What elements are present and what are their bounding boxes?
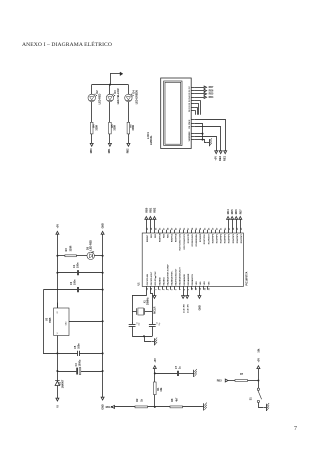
svg-text:RC7/RX/DT: RC7/RX/DT (208, 233, 210, 244)
wire R3 row (57, 254, 65, 256)
U1 top pin RD2/PSP2 stub (218, 230, 220, 233)
U1 pin number 13 (147, 287, 149, 290)
terminal VSS (down arrow) (198, 296, 201, 299)
U1 pin number 8 (184, 288, 186, 290)
wire LCD D7 to terminal RD7 (194, 86, 204, 88)
wire U1 RD5 up (231, 219, 233, 230)
U1 pin name MCLR/Vpp/THV (155, 271, 157, 286)
wire OSC1 left loop (132, 289, 146, 322)
LCD pin D1 stub (191, 106, 194, 108)
svg-text:RD5: RD5 (231, 209, 234, 214)
LCD pin name RW (189, 121, 191, 124)
wire LCD D1 down (194, 107, 197, 115)
wire LCD D0 down (194, 110, 195, 114)
U1 pin number 31 (208, 287, 210, 290)
resistor R7 (235, 380, 248, 382)
svg-text:OSC2/CLKOUT: OSC2/CLKOUT (151, 271, 153, 285)
U1 top pin RB1 stub (149, 230, 151, 233)
U1 bottom pin RE2/AN7/CS stub (190, 286, 192, 289)
label net +5V (LCD) (213, 156, 217, 161)
label value 330R (95, 125, 98, 131)
U1 bottom pin RA3/AN3/VREF+ stub (169, 286, 171, 289)
svg-text:GND: GND (199, 305, 202, 311)
U1 pin number 28 (233, 227, 235, 230)
wire LED to resistor R4 (90, 102, 92, 123)
label C2 value (159, 323, 161, 326)
svg-text:+5V: +5V (257, 358, 260, 363)
U1 top pin RD6/PSP6 stub (235, 230, 237, 233)
wire LCD RS to terminal (194, 126, 220, 150)
svg-text:RE2/AN7/CS: RE2/AN7/CS (191, 274, 194, 286)
svg-text:100n: 100n (74, 279, 77, 285)
svg-text:LCD_EN: LCD_EN (187, 304, 189, 313)
wire MCLR row left (115, 405, 136, 407)
LCD pin name D1 (189, 105, 191, 108)
svg-text:RD6/PSP6: RD6/PSP6 (237, 234, 239, 243)
svg-text:100n: 100n (77, 262, 80, 268)
label net RB1 (U1 top) (149, 207, 152, 212)
U1 pin number 40 (175, 227, 178, 230)
label C3 value (78, 359, 81, 366)
wire rail to LED D3 (108, 85, 110, 95)
label net RD7 (U1 top) (239, 209, 242, 214)
label R4 (93, 124, 96, 128)
label D3 (114, 90, 117, 94)
wire LCD D5 to terminal RD5 (194, 92, 204, 94)
U1 top pin RD1/PSP1 stub (214, 230, 216, 233)
svg-text:GND: GND (102, 223, 105, 229)
ground (LCD) (207, 138, 212, 146)
capacitor C7 (155, 371, 192, 376)
U1 bottom pin MCLR/Vpp/THV stub (153, 286, 155, 289)
U1 pin number 20 (217, 227, 219, 230)
wire U1 RD4 up (227, 219, 229, 230)
U1 bottom pin RA5/AN4/SS/C2OUT stub (178, 286, 180, 289)
U1 pin number 7 (180, 288, 182, 290)
svg-text:RB0: RB0 (145, 207, 148, 212)
svg-text:RD6: RD6 (235, 209, 238, 214)
label net RE2 (218, 155, 222, 161)
svg-text:RB1: RB1 (149, 207, 152, 212)
LED D3 LED-YELLOW (106, 94, 115, 102)
U1 pin number 25 (204, 227, 206, 230)
power +5V arrow (top) (110, 72, 123, 76)
U1 pin name VSS (208, 281, 210, 286)
label 7805 (49, 317, 52, 323)
U1 pin name RC3/SCK/SCL (192, 233, 194, 246)
wire U1 RD6 up (235, 219, 237, 230)
LCD LCD1 outer body (161, 78, 192, 149)
label net RD5 (209, 93, 214, 96)
label C1 (136, 322, 138, 324)
voltage regulator U3 7805 body (54, 308, 69, 336)
svg-text:7805: 7805 (49, 317, 52, 323)
terminal LCD_RS (down arrow) (182, 296, 185, 299)
terminal RD4 (right arrow) (204, 96, 206, 99)
U1 top pin RC4/SDI/SDA stub (194, 230, 196, 233)
svg-text:RB2: RB2 (127, 148, 130, 153)
svg-text:1N4007: 1N4007 (61, 379, 64, 388)
wire R8 to ground (183, 405, 202, 407)
label LED-GREEN (135, 90, 138, 104)
label net RB2 (127, 148, 130, 153)
LCD pin E stub (191, 118, 194, 120)
svg-text:RE1: RE1 (222, 155, 226, 161)
ground (button) (264, 403, 269, 411)
LCD pin D2 stub (191, 102, 194, 104)
terminal MCLR (left arrow) (112, 405, 115, 408)
U3 pin VO stub (56, 303, 58, 308)
wire LCD VDD to +5V terminal (194, 136, 216, 150)
svg-text:MCLR: MCLR (106, 406, 113, 409)
label net +5V (PSU) (56, 224, 59, 229)
LCD pin name VSS (189, 137, 191, 142)
junction R3 row left (56, 255, 58, 257)
svg-text:RD2/PSP2: RD2/PSP2 (221, 234, 223, 243)
terminal +5V (PSU top, up arrow) (56, 231, 59, 234)
U1 bottom pin RA4/T0CKI/C1OUT stub (173, 286, 175, 289)
wire U1 RB0 up (145, 219, 147, 230)
wire to LCD ground (202, 139, 206, 142)
capacitor C3 (electrolytic) (57, 368, 102, 375)
svg-text:RE1/AN6/WR: RE1/AN6/WR (187, 273, 190, 285)
U1 bottom pin VSS stub (206, 286, 208, 289)
U1 pin name VSS (200, 281, 202, 286)
diode D1 1N4007 (55, 371, 60, 398)
terminal RB1 (down arrow) (108, 143, 111, 146)
svg-text:20MHz: 20MHz (146, 297, 149, 305)
wire D5 to GND rail (94, 254, 102, 256)
label net VI (56, 405, 60, 408)
label C4 (73, 264, 76, 268)
U1 top pin RC7/RX/DT stub (206, 230, 208, 233)
U1 top pin RB3/PGM stub (157, 230, 159, 233)
terminal MCLR (down arrow) (153, 296, 156, 299)
label net RB3 (217, 379, 222, 382)
U1 top pin RD0/PSP0 stub (210, 230, 212, 233)
wire node down to switch (257, 381, 259, 389)
svg-text:LCD_RS: LCD_RS (183, 304, 185, 313)
label C5 (74, 345, 77, 349)
U1 top pin RC0/T1OSO/T1CKI stub (178, 230, 180, 233)
U1 bottom pin RA2/AN2/VREF-/CVREF stub (165, 286, 167, 289)
U1 pin name RD4/PSP4 (228, 233, 231, 243)
wire OSC2 down (150, 289, 152, 322)
svg-text:RB1: RB1 (151, 234, 153, 238)
svg-text:22p: 22p (139, 323, 141, 326)
wire U3 GND to rail (69, 320, 103, 322)
junction RW/VSS (202, 139, 204, 141)
svg-text:RA2/AN2/VREF-/CVREF: RA2/AN2/VREF-/CVREF (166, 263, 169, 285)
label 1N4007 (61, 379, 64, 388)
U1 pin name RD2/PSP2 (221, 234, 223, 243)
U1 pin name RA4/T0CKI/C1OUT (175, 268, 178, 286)
wire LED to resistor R5 (108, 102, 110, 123)
terminal RB1 (up arrow) (149, 216, 152, 219)
capacitor C2 (149, 322, 156, 336)
wire node up to +5V (257, 369, 259, 381)
label C7 value (179, 366, 182, 369)
svg-text:OSC1/CLKIN: OSC1/CLKIN (147, 273, 149, 285)
label LCD1 (146, 132, 150, 139)
label net +5V (button) (257, 358, 260, 363)
svg-text:RC4/SDI/SDA: RC4/SDI/SDA (195, 234, 198, 247)
U1 top pin RB6/PGC stub (169, 230, 171, 233)
U1 pin name RA1/AN1 (162, 277, 165, 285)
junction RW/VEE (202, 133, 204, 135)
capacitor C4 (57, 270, 102, 275)
label net RD6 (209, 89, 214, 92)
label net RD5 (U1 top) (231, 209, 234, 214)
junction R3 row right (102, 255, 104, 257)
U3 pin name GND (66, 321, 68, 326)
terminal RB2 (up arrow) (153, 216, 156, 219)
svg-text:GND: GND (102, 404, 105, 410)
label LED-RED (99, 93, 102, 104)
label D2 (96, 90, 99, 94)
svg-text:RB6/PGC: RB6/PGC (172, 233, 174, 242)
U1 pin number 17 (188, 227, 190, 230)
LCD pin D4 stub (191, 96, 194, 98)
wire +5V rail (PSU) (56, 234, 58, 308)
label D5 (87, 246, 90, 250)
svg-text:+5V: +5V (56, 224, 59, 229)
wire rail to LED D2 (90, 85, 92, 95)
U1 pin name RA0/AN0 (158, 277, 161, 285)
label R7 value 10k (257, 348, 260, 353)
terminal RD4 (up arrow) (227, 216, 230, 219)
LCD pin name D2 (189, 102, 191, 105)
LCD pin name D0 (189, 109, 191, 112)
U1 top pin RB4 stub (161, 230, 163, 233)
U1 pin number 29 (237, 227, 239, 230)
U1 pin number 24 (199, 227, 202, 230)
resistor R3 (65, 255, 77, 257)
label C6 (70, 281, 73, 285)
svg-text:100n: 100n (77, 343, 80, 349)
wire resistor to terminal RB1 (108, 134, 110, 144)
svg-text:VDD: VDD (204, 281, 206, 286)
svg-text:7: 7 (294, 426, 297, 432)
LCD pin name E (189, 119, 191, 121)
U1 top pin RB5 stub (165, 230, 167, 233)
wire U3 VI down (56, 336, 58, 354)
U1 pin name VDD (196, 281, 198, 286)
svg-text:RB2: RB2 (155, 234, 157, 238)
wire switch to ground (258, 402, 263, 407)
LED D4 LED-GREEN (125, 94, 134, 102)
svg-text:RD5/PSP5: RD5/PSP5 (233, 234, 235, 243)
junction U3 GND rail (102, 320, 104, 322)
resistor R2 (135, 406, 148, 408)
label LED-YELLOW (117, 88, 120, 105)
svg-text:LED-RED: LED-RED (90, 240, 93, 251)
U1 pin number 32 (204, 287, 206, 290)
label LM016L (149, 135, 153, 145)
label R1 (157, 387, 160, 391)
U1 bottom pin OSC2/CLKOUT stub (149, 286, 151, 289)
label C2 (157, 322, 159, 324)
wire RB3 to R7 (228, 379, 235, 381)
svg-text:330R: 330R (132, 125, 135, 131)
label net MCLR (row) (106, 406, 113, 409)
svg-text:RD0/PSP0: RD0/PSP0 (212, 234, 214, 243)
U1 pin number 26 (208, 227, 210, 230)
U1 pin name RC0/T1OSO/T1CKI (180, 233, 182, 250)
label crystal freq (146, 297, 149, 305)
wire crystal bottom row (132, 335, 152, 337)
U1 pin name RD3/PSP3 (225, 234, 227, 243)
svg-text:LED-GREEN: LED-GREEN (135, 90, 138, 104)
svg-text:RB0: RB0 (90, 148, 93, 153)
wire LCD D6 to terminal RD6 (194, 89, 204, 91)
U1 pin number 23 (196, 227, 198, 230)
crystal X1 (132, 308, 152, 315)
U1 pin name RC4/SDI/SDA (195, 234, 198, 247)
svg-text:RD4/PSP4: RD4/PSP4 (228, 233, 231, 243)
junction C3 row left (56, 370, 58, 372)
svg-text:RB2: RB2 (153, 207, 156, 212)
svg-text:+5V: +5V (154, 358, 157, 363)
wire LCD D4 to terminal RD4 (194, 96, 204, 98)
junction on LED rail (109, 84, 111, 86)
terminal RD5 (up arrow) (231, 216, 234, 219)
terminal GND (PSU bottom, down arrow) (101, 397, 104, 400)
resistor R5 (109, 122, 112, 134)
label net (U1 bottom far) (199, 305, 202, 311)
U1 pin name VDD (204, 281, 206, 286)
U1 pin name RB3/PGM (159, 233, 161, 242)
U1 pin number 15 (180, 227, 182, 230)
U1 pin number 5 (172, 288, 174, 290)
label net LCD_EN (U1 bottom) (187, 304, 189, 313)
U1 pin name RA2/AN2/VREF-/CVREF (166, 263, 169, 285)
label R5 (111, 124, 114, 128)
U1 pin name RE0/AN5/RD (183, 274, 186, 286)
U1 pin name RB1 (151, 234, 153, 238)
resistor R6 (127, 122, 130, 134)
U1 pin name RE1/AN6/WR (187, 273, 190, 285)
terminal RD5 (right arrow) (204, 93, 206, 96)
junction C6 row right (102, 289, 104, 291)
label U3 (46, 317, 49, 321)
U1 pin number 1 (155, 288, 157, 290)
label R2 (136, 398, 139, 402)
terminal RB3 (right arrow) (225, 379, 228, 382)
label R3 (65, 248, 68, 252)
label C6 value (74, 279, 77, 285)
terminal GND (PSU top, up arrow) (101, 231, 104, 234)
label R8 value (175, 397, 178, 402)
wire U1 RB1 up (149, 219, 151, 230)
LCD pin D5 stub (191, 92, 194, 94)
U1 pin number 18 (192, 227, 194, 230)
label net RD7 (209, 86, 214, 89)
svg-text:RD4: RD4 (227, 209, 230, 214)
svg-text:RB3: RB3 (217, 379, 222, 382)
U1 pin number 27 (229, 227, 231, 230)
svg-text:330R: 330R (69, 245, 72, 251)
U1 pin name RD6/PSP6 (237, 234, 239, 243)
junction button node (257, 380, 259, 382)
svg-text:RD7: RD7 (239, 209, 242, 214)
svg-text:RC1/T1OSI/CCP2: RC1/T1OSI/CCP2 (184, 234, 186, 249)
U1 pin name OSC1/CLKIN (147, 273, 149, 285)
svg-text:RA0/AN0: RA0/AN0 (158, 277, 161, 285)
U1 bottom pin RA1/AN1 stub (161, 286, 163, 289)
svg-text:RA1/AN1: RA1/AN1 (162, 277, 165, 285)
U1 pin name RC6/TX/CK (204, 234, 206, 245)
U1 bottom pin VDD stub (194, 286, 196, 289)
label net RD6 (U1 top) (235, 209, 238, 214)
junction C3 row right (102, 370, 104, 372)
wire VSS to ground bus (194, 138, 202, 140)
U1 top pin RC3/SCK/SCL stub (190, 230, 192, 233)
label net RB0 (90, 148, 93, 153)
LCD pin name D5 (189, 92, 191, 95)
LCD pin RW stub (191, 122, 194, 124)
terminal RD6 (right arrow) (204, 89, 206, 92)
svg-text:RA4/T0CKI/C1OUT: RA4/T0CKI/C1OUT (175, 268, 178, 286)
wire U1 LCD_EN down (186, 290, 188, 296)
junction C4 row left (56, 272, 58, 274)
resistor R4 (90, 122, 93, 134)
svg-text:RB7/PGD: RB7/PGD (176, 233, 178, 242)
wire LED to resistor R6 (127, 102, 129, 123)
wire LCD D2 down (194, 103, 199, 114)
U1 pin number 22 (225, 227, 227, 230)
U1 pin name RD0/PSP0 (212, 234, 214, 243)
label net RB1 (108, 148, 111, 153)
wire U1 RE2/CS pin down (198, 290, 200, 296)
svg-text:+5V: +5V (213, 156, 217, 161)
label net MCLR (154, 306, 157, 313)
label net RB0 (U1 top) (145, 207, 148, 212)
svg-text:RB1: RB1 (108, 148, 111, 153)
U1 pin number 9 (188, 288, 190, 290)
U1 pin number 39 (172, 227, 174, 230)
terminal RD7 (up arrow) (239, 216, 242, 219)
U1 pin name RB4 (162, 233, 165, 238)
terminal VI input (down arrow) (56, 398, 59, 401)
LCD pin VSS stub (191, 138, 194, 140)
label net RD4 (U1 top) (227, 209, 230, 214)
svg-text:RB0/INT: RB0/INT (147, 234, 149, 242)
label U1 (138, 282, 141, 286)
svg-text:RB3/PGM: RB3/PGM (159, 233, 161, 242)
U1 pin name RC1/T1OSI/CCP2 (184, 234, 186, 249)
label net GND (PSU bottom) (102, 404, 105, 410)
U1 pin number 14 (150, 287, 153, 290)
wire resistor to terminal RB0 (90, 134, 92, 144)
junction C4 row right (102, 272, 104, 274)
U1 pin number 38 (168, 227, 170, 230)
U1 pin number 30 (241, 227, 243, 230)
label C3 (75, 363, 78, 367)
wire U1 RD7 up (239, 219, 241, 230)
svg-text:PIC16F877A: PIC16F877A (246, 271, 249, 285)
svg-text:RD7/PSP7: RD7/PSP7 (241, 234, 243, 243)
wire GND rail (PSU) (101, 234, 103, 397)
U1 pin name RD1/PSP1 (216, 234, 218, 243)
capacitor C6 (77, 287, 102, 292)
wire VEE to ground bus (194, 132, 202, 134)
svg-text:4k7: 4k7 (175, 397, 178, 402)
U1 pin number 21 (221, 227, 223, 230)
terminal RB0 (up arrow) (145, 216, 148, 219)
LCD pin VDD stub (191, 135, 194, 137)
resistor R1 (154, 382, 157, 395)
